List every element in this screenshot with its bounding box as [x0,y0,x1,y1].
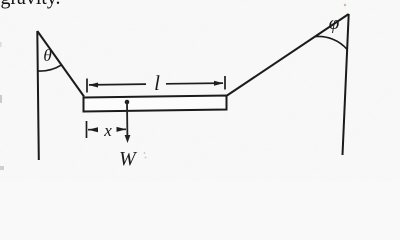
svg-text:l: l [154,71,160,95]
svg-text:gravity.: gravity. [1,0,61,9]
svg-text:θ: θ [43,46,51,65]
svg-text:φ: φ [329,13,340,34]
svg-text:W: W [119,148,138,170]
svg-text:x: x [103,121,112,140]
